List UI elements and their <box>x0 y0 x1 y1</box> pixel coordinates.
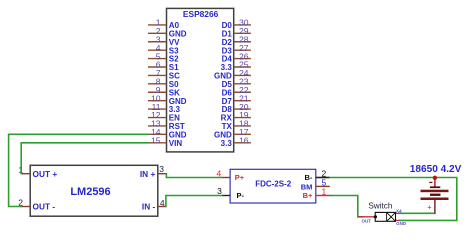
svg-text:B-: B- <box>304 173 312 182</box>
svg-text:B+: B+ <box>303 191 313 200</box>
svg-text:BM: BM <box>301 182 313 191</box>
LM2596 body <box>30 165 158 216</box>
switch left stub (OUT) <box>358 216 375 218</box>
svg-text:P+: P+ <box>235 173 245 182</box>
ESP8266 pin 4 (S3) stub <box>148 49 167 51</box>
ESP8266 pin 7 (SC) stub <box>148 74 167 76</box>
switch left junction dot <box>374 215 377 218</box>
ESP8266 pin 5 (S2) stub <box>148 58 167 60</box>
svg-text:18650 4.2V: 18650 4.2V <box>410 164 462 175</box>
battery BT1 18650 4.2V <box>410 164 462 213</box>
FDC pin 2 B- stub <box>316 177 330 179</box>
ESP8266 pin 25 (3.3) stub <box>234 66 251 68</box>
wire switch right top to battery positive <box>400 212 435 214</box>
junction dot battery negative <box>433 176 437 180</box>
switch right top stub <box>393 212 400 214</box>
wire FDC B+ to switch OUT <box>331 196 363 217</box>
ESP8266 pin 2 (GND) stub <box>148 32 167 34</box>
svg-text:LM2596: LM2596 <box>70 186 110 198</box>
wire LM2596 IN+ to FDC P+ <box>166 174 222 178</box>
ESP8266 pin 18 (TX) stub <box>234 125 251 127</box>
svg-text:4: 4 <box>160 198 165 208</box>
switch right bottom stub <box>393 219 400 221</box>
ESP8266 pin 8 (S0) stub <box>148 83 167 85</box>
ESP8266 pin 27 (D3) stub <box>234 49 251 51</box>
svg-text:3: 3 <box>217 186 222 196</box>
wire LM2596 IN- to FDC P- <box>166 196 222 207</box>
svg-text:Switch: Switch <box>368 201 393 210</box>
svg-text:OUT -: OUT - <box>33 202 56 212</box>
svg-text:3.3: 3.3 <box>221 139 233 148</box>
svg-text:GND: GND <box>396 221 407 226</box>
battery minus mark <box>429 182 432 183</box>
svg-text:1: 1 <box>322 187 327 197</box>
wire ESP GND pin14 to LM2596 OUT- <box>9 134 148 206</box>
wire FDC B- to battery negative and switch GND <box>330 178 457 221</box>
ESP8266 pin 20 (D8) stub <box>234 108 251 110</box>
FDC-2S-2 body <box>230 169 316 203</box>
ESP8266 body <box>167 8 234 152</box>
ESP8266 pin 14 (GND) stub <box>148 133 167 135</box>
ESP8266 pin 23 (D5) stub <box>234 83 251 85</box>
FDC pin 1 B+ stub <box>316 195 331 197</box>
svg-text:IN +: IN + <box>140 169 156 179</box>
svg-text:FDC-2S-2: FDC-2S-2 <box>255 179 292 188</box>
svg-text:X4: X4 <box>396 209 402 214</box>
ESP8266 pin 13 (RST) stub <box>148 125 167 127</box>
svg-text:+: + <box>427 202 431 211</box>
svg-text:VIN: VIN <box>169 139 183 148</box>
battery plate short 2 <box>430 194 441 196</box>
svg-text:3: 3 <box>159 164 164 174</box>
ESP8266 pin 30 (D0) stub <box>234 24 251 26</box>
svg-text:P-: P- <box>237 191 245 200</box>
svg-text:16: 16 <box>239 135 249 145</box>
ESP8266 pin 10 (GND) stub <box>148 100 167 102</box>
ESP8266 pin 1 (A0) stub <box>148 24 167 26</box>
ESP8266 pin 28 (D2) stub <box>234 41 251 43</box>
wire ESP VIN pin15 to LM2596 OUT+ <box>21 143 148 174</box>
LM2596 pin 1 OUT+ stub <box>21 173 30 175</box>
ESP8266 pin 9 (SK) stub <box>148 91 167 93</box>
ESP8266 pin 29 (D1) stub <box>234 32 251 34</box>
svg-text:ESP8266: ESP8266 <box>183 9 219 19</box>
ESP8266 pin 6 (S1) stub <box>148 66 167 68</box>
LM2596 pin 4 IN- stub <box>158 206 166 208</box>
ESP8266 pin 22 (D6) stub <box>234 91 251 93</box>
FDC pin 5 BM stub <box>316 185 330 187</box>
ESP8266 pin 12 (EN) stub <box>148 117 167 119</box>
ESP8266 pin 16 (3.3) stub <box>234 142 251 144</box>
LM2596 pin 3 IN+ stub <box>158 173 166 175</box>
switch X mark <box>387 212 396 221</box>
LM2596 buck converter module <box>18 164 166 216</box>
FDC-2S-2 protection board <box>216 168 331 203</box>
ESP8266 pin 17 (GND) stub <box>234 133 251 135</box>
switch body <box>375 212 395 221</box>
FDC pin 4 P+ stub <box>222 177 230 179</box>
svg-text:OUT +: OUT + <box>33 169 58 179</box>
ESP8266 pin 21 (D7) stub <box>234 100 251 102</box>
svg-text:OUT: OUT <box>362 219 372 224</box>
svg-text:IN -: IN - <box>142 202 156 212</box>
ESP8266 pin 3 (VV) stub <box>148 41 167 43</box>
battery top lead <box>434 178 436 187</box>
battery plate long 1 <box>421 190 449 193</box>
battery plate short 1 <box>430 186 440 188</box>
switch SW1 <box>358 201 407 226</box>
ESP8266 pin 24 (GND) stub <box>234 74 251 76</box>
svg-text:15: 15 <box>151 135 161 145</box>
battery bottom lead <box>434 200 436 214</box>
ESP8266 pin 19 (RX) stub <box>234 117 251 119</box>
LM2596 pin 2 OUT- stub <box>21 206 30 208</box>
ESP8266 pin 11 (3.3) stub <box>148 108 167 110</box>
FDC pin 3 P- stub <box>222 195 230 197</box>
ESP8266 pin 15 (VIN) stub <box>148 142 167 144</box>
battery plate long 2 <box>421 198 449 201</box>
ESP8266 pin 26 (D4) stub <box>234 58 251 60</box>
ESP8266 module U1 <box>148 8 251 152</box>
